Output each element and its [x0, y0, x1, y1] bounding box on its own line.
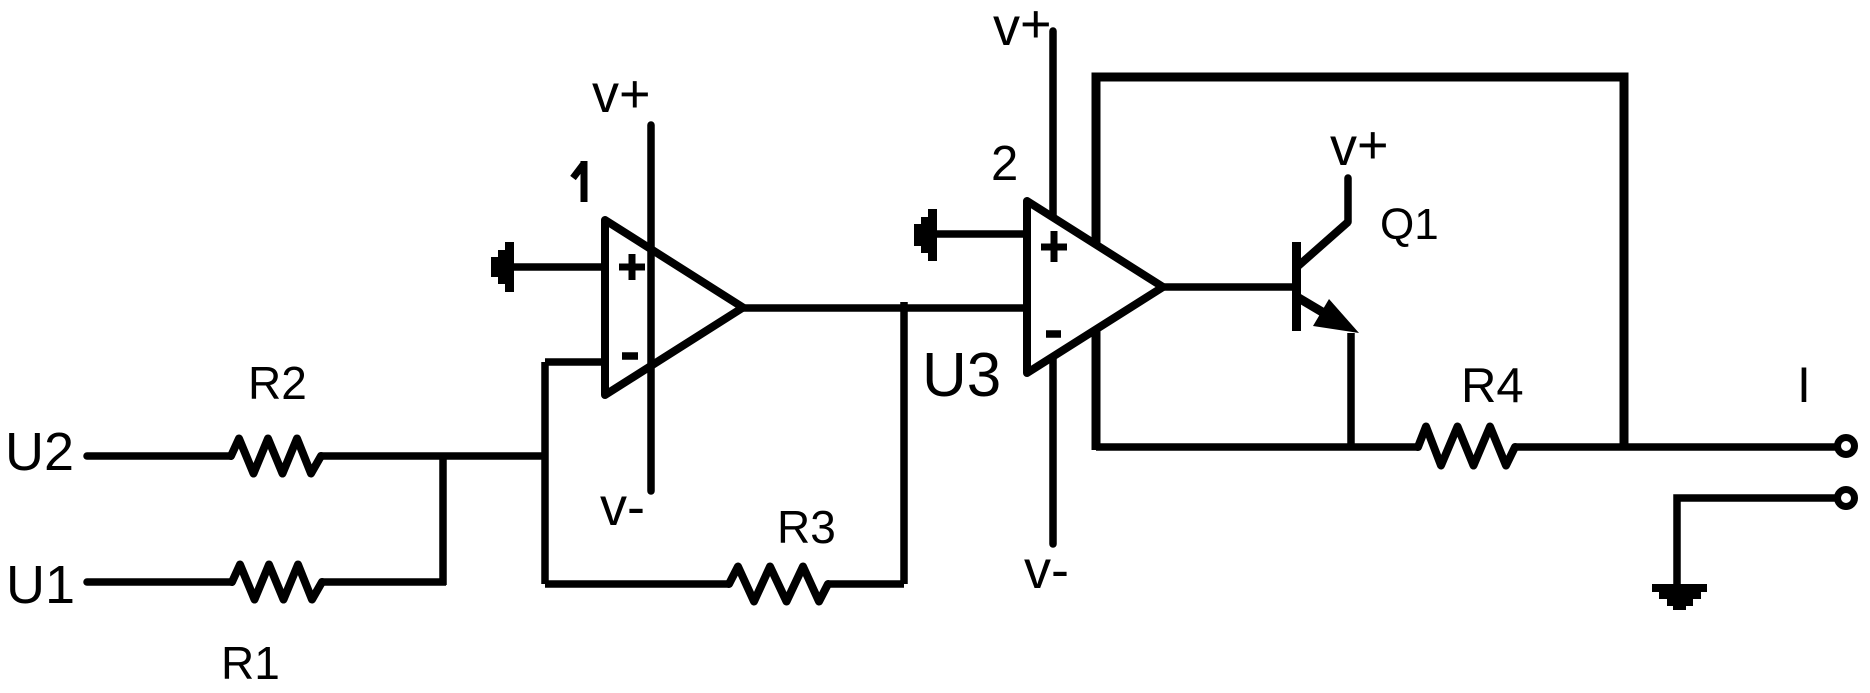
svg-text:v+: v+	[592, 64, 651, 124]
svg-text:v+: v+	[993, 0, 1052, 57]
wire op-amp 2 output to Q1 base	[1163, 283, 1297, 291]
ground arrow terminal op-amp1 + input	[491, 242, 514, 292]
output terminal bottom	[1838, 490, 1855, 507]
wire output bottom right	[1515, 443, 1838, 451]
wire U2 lead	[87, 452, 231, 460]
svg-text:R1: R1	[221, 637, 280, 689]
wire inverting node vertical	[541, 362, 549, 584]
wire R2 to node	[321, 452, 548, 460]
svg-text:R2: R2	[248, 357, 307, 409]
svg-text:U2: U2	[5, 422, 74, 482]
output terminal top	[1838, 438, 1855, 455]
emitter diagonal	[1297, 297, 1334, 319]
op-amp 2 triangle	[1027, 201, 1163, 373]
op-amp 1 minus sign	[622, 352, 638, 360]
feedback box wire	[1096, 77, 1624, 450]
emitter vertical	[1347, 333, 1355, 450]
collector diagonal	[1297, 222, 1348, 267]
svg-text:R3: R3	[777, 501, 836, 553]
svg-text:v-: v-	[1024, 540, 1069, 600]
resistor R3	[729, 567, 828, 602]
wire return terminal	[1677, 498, 1838, 586]
emitter arrowhead	[1313, 299, 1359, 333]
op-amp 2 power line	[1049, 31, 1057, 544]
op-amp 2 plus sign	[1041, 231, 1067, 262]
resistor R2	[231, 439, 321, 474]
svg-text:2: 2	[991, 137, 1018, 191]
ground	[1652, 584, 1707, 610]
svg-text:v-: v-	[600, 477, 645, 537]
svg-text:v+: v+	[1330, 115, 1389, 177]
svg-text:U1: U1	[6, 555, 75, 615]
svg-text:Q1: Q1	[1380, 200, 1439, 249]
collector vertical to v+	[1344, 178, 1352, 222]
resistor R4	[1418, 427, 1515, 466]
wire junction vertical U2-U1	[439, 456, 447, 585]
wire R3 bottom left	[545, 580, 729, 588]
resistor R1	[232, 565, 322, 600]
op-amp 1 triangle	[605, 220, 743, 395]
wire output bottom left	[1096, 443, 1418, 451]
wire R3 bottom right	[828, 580, 904, 588]
transistor Q1	[1297, 178, 1360, 450]
op-amp 2 minus sign	[1046, 330, 1061, 338]
svg-text:R4: R4	[1461, 359, 1524, 413]
wire feedback vertical at op1 output	[900, 302, 908, 584]
wire op-amp1 + input	[512, 263, 606, 271]
op-amp 1 power line	[647, 125, 655, 491]
op-amp 1 label 1	[573, 161, 584, 202]
wire to op-amp U1 inverting input	[545, 358, 606, 366]
svg-text:U3: U3	[922, 341, 1001, 410]
wire op-amp 1 output	[743, 304, 1027, 312]
wire op-amp2 + input	[935, 230, 1028, 238]
wire U1 lead	[87, 578, 232, 586]
svg-text:I: I	[1797, 357, 1811, 413]
op-amp 1 plus sign	[619, 254, 645, 280]
wire R1 to junction	[322, 578, 446, 586]
base bar	[1292, 242, 1301, 331]
ground arrow terminal op-amp2 + input	[914, 209, 937, 261]
